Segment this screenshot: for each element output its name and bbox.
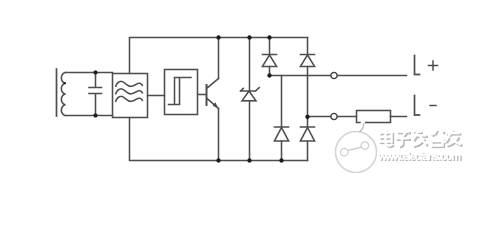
- svg-text:www.elecfans.com: www.elecfans.com: [377, 151, 461, 163]
